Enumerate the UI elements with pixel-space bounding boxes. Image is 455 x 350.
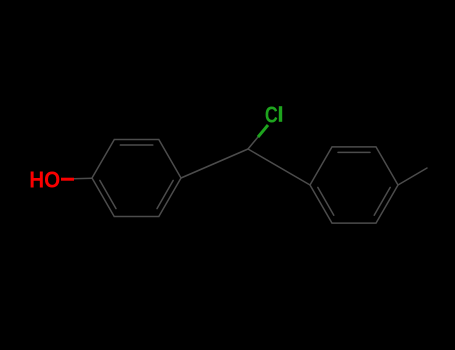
wire C(Cl) to Cl label (gray half) bbox=[248, 137, 258, 149]
svg-text:C: C bbox=[265, 102, 278, 128]
wire chain B: C(Cl) to ring2 bbox=[248, 149, 310, 185]
ring 2 inner double bond right-lower bbox=[374, 187, 390, 215]
wire O to ring (gray half) bbox=[74, 177, 92, 180]
ring 1 inner double bond left-lower bbox=[100, 180, 116, 208]
bond O-C red half bbox=[61, 178, 74, 181]
wire chain A: ring1 to C(Cl) bbox=[181, 149, 248, 178]
benzene ring 1 (phenol ring) bbox=[92, 140, 181, 217]
bond C-Cl green half bbox=[258, 125, 268, 137]
ring 1 inner double bond right-lower bbox=[157, 180, 173, 208]
label Cl : l glyph as bar bbox=[279, 106, 282, 122]
ring 2 inner double bond left-lower bbox=[318, 187, 334, 215]
methyl bond on ring 2 bbox=[398, 168, 427, 185]
ring 2 inner double bond top bbox=[338, 151, 370, 153]
svg-text:HO: HO bbox=[29, 167, 60, 193]
ring 1 inner double bond top bbox=[120, 144, 153, 146]
benzene ring 2 (tolyl ring) bbox=[310, 147, 398, 223]
